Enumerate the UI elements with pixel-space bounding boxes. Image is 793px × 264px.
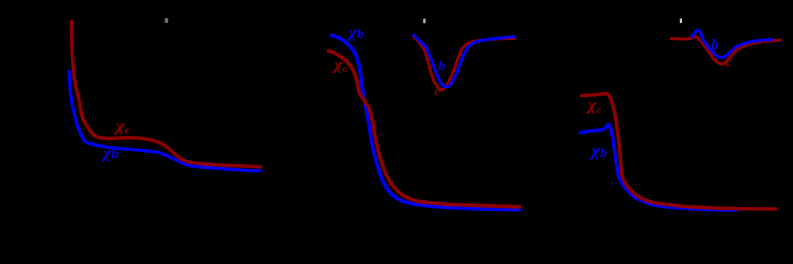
svg-text:c: c xyxy=(725,55,732,70)
panel C: gray tick mark xyxy=(680,19,682,24)
panel B: main curve chi_c (red) xyxy=(327,51,521,207)
panel B: main curve chi_b (blue) xyxy=(330,35,521,210)
panel A: curve chi_b (blue) xyxy=(69,70,261,171)
svg-text:c: c xyxy=(434,84,440,99)
svg-text:b: b xyxy=(438,58,445,73)
svg-text:χb: χb xyxy=(346,23,364,41)
panel C: main curve chi_b (blue) xyxy=(579,124,737,210)
panel C inset: curve chi_c (red) xyxy=(670,37,782,64)
panel A: gray tick mark xyxy=(165,18,169,23)
panel B inset: curve chi_b dip (blue) xyxy=(413,34,516,87)
panel B inset: curve chi_c dip (red) xyxy=(413,36,516,90)
panel C: main curve chi_c (red) xyxy=(580,94,777,209)
svg-text:χb: χb xyxy=(101,144,119,162)
svg-text:b: b xyxy=(711,37,718,53)
panel B: gray tick mark xyxy=(423,19,425,24)
panel A: curve chi_c (red) xyxy=(72,20,263,167)
panel C inset: curve chi_b (blue) xyxy=(691,30,773,57)
